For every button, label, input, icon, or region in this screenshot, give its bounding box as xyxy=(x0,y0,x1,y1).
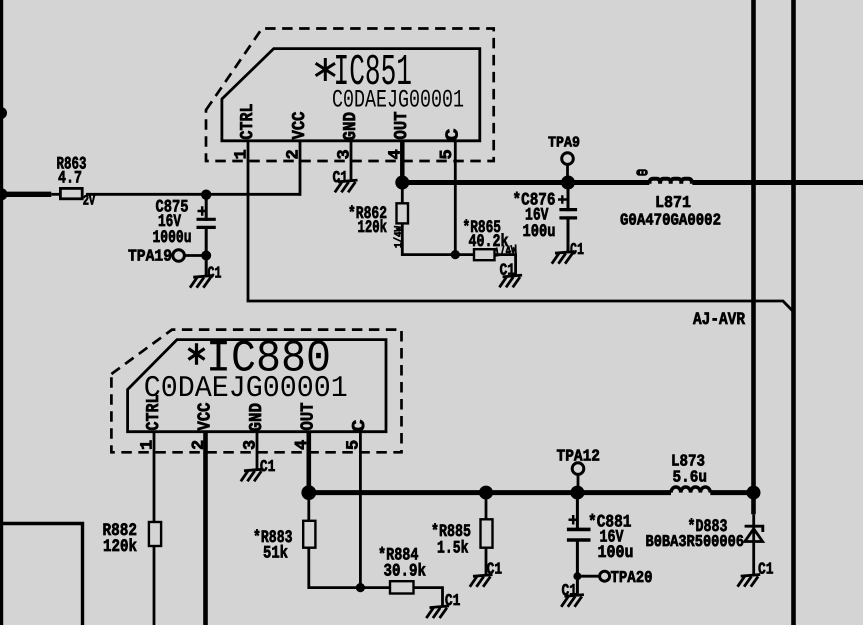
wire: right vertical bus V2 xyxy=(751,0,756,514)
resistor R865 xyxy=(474,249,495,260)
diode D883 (zener) xyxy=(752,514,755,526)
node: junction TPA9 on rail xyxy=(561,176,575,190)
IC880 dashed outline xyxy=(111,330,401,453)
svg-text:CTRL: CTRL xyxy=(144,395,164,431)
wire: R884 to ground xyxy=(414,588,443,607)
wire: node to R884 xyxy=(360,586,390,589)
svg-text:1000u: 1000u xyxy=(153,228,192,248)
ground C1 (R884) xyxy=(426,606,449,618)
ground C1 (C881) xyxy=(561,595,584,607)
node: junction left bus to R863 feed xyxy=(0,188,8,200)
node: junction TPA19/C875 xyxy=(201,251,211,261)
svg-text:GND: GND xyxy=(341,112,361,141)
ground C1 (R885) xyxy=(470,575,493,587)
svg-text:30.9k: 30.9k xyxy=(384,562,427,582)
svg-text:TPA19: TPA19 xyxy=(128,247,172,266)
svg-text:1.5k: 1.5k xyxy=(437,539,469,559)
svg-text:C0DAEJG00001: C0DAEJG00001 xyxy=(144,372,348,406)
svg-text:120k: 120k xyxy=(358,218,388,238)
node: junction TPA12/C881 on rail xyxy=(570,486,584,500)
testpoint TPA20 xyxy=(577,575,599,578)
svg-text:C1: C1 xyxy=(445,591,461,610)
wire: R865 to ground xyxy=(495,255,516,276)
ground C1 (R865) xyxy=(499,275,522,287)
resistor R885 xyxy=(485,493,488,520)
svg-text:B0BA3R500006: B0BA3R500006 xyxy=(646,532,745,551)
capacitor C876 xyxy=(567,183,570,212)
svg-text:51k: 51k xyxy=(263,544,288,564)
ground C1 (C875) xyxy=(190,276,213,288)
wire: left bus vertical xyxy=(0,0,3,625)
node: junction L873/D883 xyxy=(747,486,761,500)
node: stub dot on left bus xyxy=(0,107,7,119)
svg-text:120k: 120k xyxy=(103,537,137,557)
capacitor C875 xyxy=(205,194,208,221)
node: OUT junction IC880 xyxy=(301,485,316,500)
svg-text:C1: C1 xyxy=(500,261,516,280)
svg-text:GND: GND xyxy=(247,403,267,432)
wire: IC851 pin3 stem xyxy=(350,141,353,181)
node: junction pin5/R865 xyxy=(451,250,460,259)
svg-text:4.7: 4.7 xyxy=(58,169,82,189)
resistor R883 xyxy=(307,493,310,521)
svg-text:G0A470GA0002: G0A470GA0002 xyxy=(620,210,721,229)
svg-text:TPA9: TPA9 xyxy=(548,134,580,151)
svg-text:C: C xyxy=(350,419,370,432)
op-amp/regulator IC851 body xyxy=(222,49,480,141)
svg-text:C1: C1 xyxy=(208,264,222,283)
svg-text:C1: C1 xyxy=(570,240,584,259)
node: junction at C875 xyxy=(201,190,211,200)
bead mark above L871 xyxy=(636,169,648,175)
ground C1 (C876) xyxy=(552,252,575,264)
wire: IC851 pin1 stem down to AJ-AVR xyxy=(247,141,250,301)
svg-text:OUT: OUT xyxy=(392,111,412,139)
wire: R883 bottom to pin5 node xyxy=(309,548,361,588)
svg-text:2V: 2V xyxy=(83,194,96,210)
svg-text:C1: C1 xyxy=(758,560,774,579)
wire: IC851 pin4 thick stem xyxy=(400,141,405,183)
resistor R882 xyxy=(149,522,161,546)
svg-text:C1: C1 xyxy=(333,168,349,187)
wire: IC880 pin4 thick stem xyxy=(306,432,311,493)
node: junction TPA20 xyxy=(573,572,581,580)
resistor R863 xyxy=(60,188,82,198)
svg-text:100u: 100u xyxy=(523,222,556,242)
wire: IC880 pin5 stem xyxy=(359,432,362,588)
wire: R863 to VCC riser xyxy=(86,193,301,196)
wire: IC880 pin1 stem xyxy=(153,432,156,522)
wire: IC851 pin2 riser xyxy=(299,141,302,196)
op-amp/regulator IC880 body xyxy=(128,340,386,432)
svg-text:VCC: VCC xyxy=(290,111,310,139)
inductor L871 xyxy=(650,179,692,184)
IC851 dashed outline xyxy=(206,29,494,162)
svg-text:C1: C1 xyxy=(562,581,578,600)
wire: right vertical bus V3 xyxy=(791,0,796,625)
wire: IC851 pin5 stem xyxy=(454,141,457,255)
wire: top output rail xyxy=(402,180,649,185)
node: junction pin5/R884 xyxy=(356,583,365,592)
wire: thick feed to R863 xyxy=(0,192,51,197)
wire: IC880 pin2 thick stem xyxy=(203,432,208,625)
svg-text:C0DAEJG00001: C0DAEJG00001 xyxy=(332,86,464,115)
svg-text:AJ-AVR: AJ-AVR xyxy=(693,310,745,330)
svg-text:VCC: VCC xyxy=(196,402,216,430)
ground C1 (IC880 pin3) xyxy=(241,469,264,481)
resistor R862 xyxy=(397,203,409,223)
ground C1 (IC851 pin3) xyxy=(335,180,358,192)
svg-text:CTRL: CTRL xyxy=(238,104,258,140)
resistor R884 xyxy=(390,581,414,593)
inductor L873 xyxy=(671,487,710,493)
label *IC880 xyxy=(188,343,204,365)
svg-text:L871: L871 xyxy=(655,193,691,212)
svg-text:100u: 100u xyxy=(598,543,634,563)
svg-text:OUT: OUT xyxy=(299,402,319,430)
svg-text:C1: C1 xyxy=(487,559,503,578)
svg-text:TPA20: TPA20 xyxy=(611,568,653,587)
wire: IC880 pin3 stem xyxy=(256,432,259,470)
wire: AJ-AVR net xyxy=(247,301,794,312)
svg-text:1/4W: 1/4W xyxy=(394,226,406,248)
wire: bottom output rail xyxy=(309,490,671,495)
node: OUT junction IC851 xyxy=(395,176,409,190)
svg-text:2: 2 xyxy=(285,149,304,159)
wire: R862 bottom to R865 net xyxy=(402,183,474,255)
node: junction R885 on rail xyxy=(479,486,493,500)
svg-text:C1: C1 xyxy=(260,457,276,476)
svg-text:5.6u: 5.6u xyxy=(673,468,708,487)
ground C1 (D883) xyxy=(738,575,761,587)
svg-text:C: C xyxy=(444,128,464,141)
partial component box bottom-left xyxy=(0,524,83,625)
capacitor C881 xyxy=(576,493,579,531)
label *IC851 xyxy=(316,58,335,81)
